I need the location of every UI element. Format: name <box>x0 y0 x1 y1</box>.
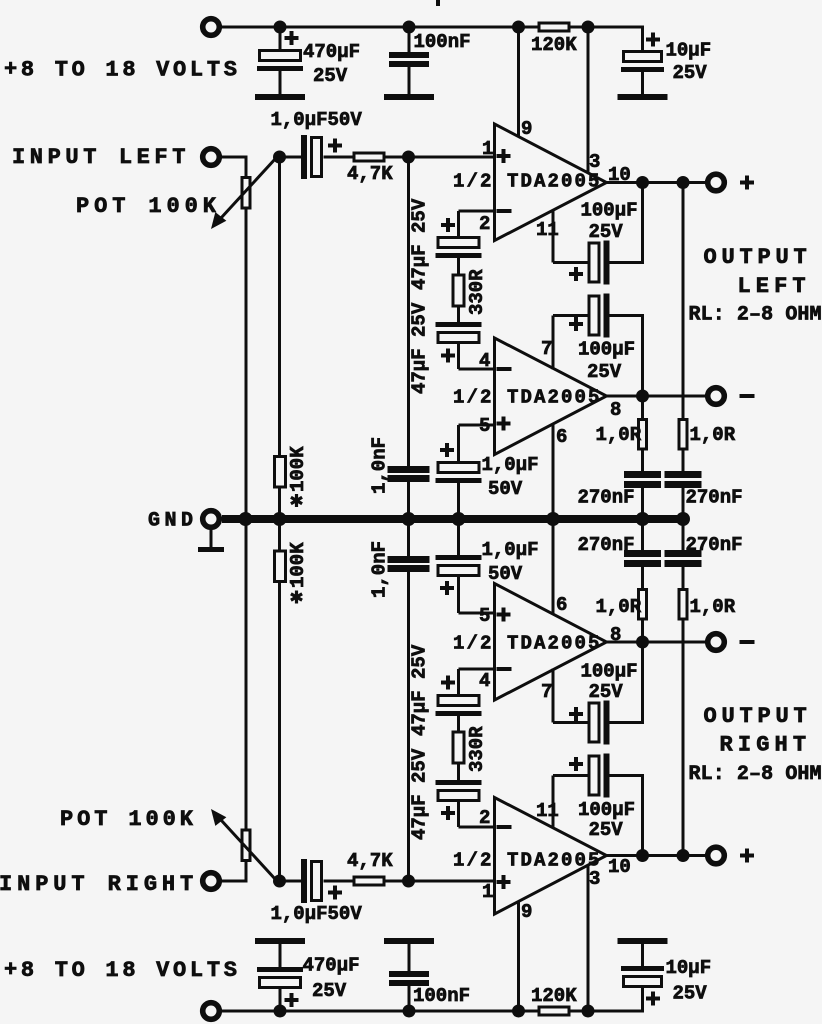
wire pin 3 U1 <box>587 27 590 174</box>
plus input symbol U1b <box>497 417 511 431</box>
label 50V C20 <box>488 563 523 585</box>
node bottom rail / C14 <box>403 1005 416 1018</box>
plus sign C9 <box>569 267 583 281</box>
plus sign C7 <box>441 349 455 363</box>
plus input symbol U2b <box>497 608 511 622</box>
plus sign C19 <box>441 676 455 690</box>
svg-text:10µF: 10µF <box>666 40 712 62</box>
label RL: 2-8 OHM (left) <box>689 304 822 327</box>
wire top supply rail <box>222 26 644 29</box>
svg-text:1,0µF: 1,0µF <box>482 539 539 561</box>
svg-text:1,0R: 1,0R <box>596 596 642 618</box>
svg-text:100K: 100K <box>287 542 309 588</box>
pin label 4 U1b <box>479 350 490 372</box>
label 4,7K (bottom) <box>347 850 393 872</box>
label 25V C13 <box>312 980 347 1002</box>
pin label 3 U1 <box>589 151 600 173</box>
wire input right to pot <box>222 861 248 881</box>
label +8 TO 18 VOLTS (bottom) <box>4 958 241 983</box>
label 120K (top) <box>531 34 577 56</box>
svg-text:1/2 TDA2005: 1/2 TDA2005 <box>453 171 602 193</box>
minus input symbol U2b <box>497 667 512 671</box>
svg-text:9: 9 <box>521 118 532 140</box>
label 1,0R R5 <box>596 424 642 446</box>
pin 6 lead U1b <box>552 424 555 520</box>
pin label 11 U1a <box>536 219 559 241</box>
pin 11 lead U2a <box>552 776 555 829</box>
label 270nF C23 <box>578 534 635 556</box>
svg-text:POT 100K: POT 100K <box>60 807 197 832</box>
svg-text:1,0µF: 1,0µF <box>482 454 539 476</box>
pin label 5 U1b <box>479 415 490 437</box>
pot wiper arrow P2 <box>211 809 276 880</box>
pin 7 lead U2b <box>552 669 555 723</box>
label 120K (bottom) <box>531 985 577 1007</box>
svg-text:1/2 TDA2005: 1/2 TDA2005 <box>453 633 602 655</box>
label INPUT RIGHT <box>0 872 198 897</box>
svg-text:47µF 25V: 47µF 25V <box>409 644 431 736</box>
capacitor C12 270nF right <box>665 471 702 519</box>
svg-text:+8 TO 18 VOLTS: +8 TO 18 VOLTS <box>4 958 241 983</box>
potentiometer P1 100K <box>242 178 250 209</box>
op-amp U2b 1/2 TDA2005 <box>495 584 607 701</box>
svg-text:100µF: 100µF <box>578 799 635 821</box>
svg-text:100µF: 100µF <box>581 200 638 222</box>
plus sign C8 <box>440 443 454 457</box>
ground C1 <box>255 94 305 100</box>
svg-text:1: 1 <box>482 881 493 903</box>
svg-text:OUTPUT: OUTPUT <box>704 245 812 270</box>
wire R8 to pin 1 U2 <box>386 880 495 883</box>
label 1/2 TDA2005 U1b <box>453 387 602 409</box>
plus sign C18 <box>441 806 455 820</box>
label +8 TO 18 VOLTS (top) <box>4 58 241 83</box>
resistor R2 4,7K (top) <box>354 153 384 161</box>
capacitor C6 47uF 25V upper <box>436 238 482 275</box>
label 1,0uF C8 <box>482 454 539 476</box>
terminal output right - <box>708 634 725 651</box>
svg-text:10: 10 <box>608 856 631 878</box>
label INPUT LEFT <box>12 145 190 170</box>
label 25V C9 <box>589 221 624 243</box>
node input node / 1,0nF <box>402 151 415 164</box>
node ground bus 5 <box>546 512 560 526</box>
svg-text:330R: 330R <box>466 726 488 772</box>
node ground bus 1 <box>239 512 253 526</box>
label 270nF C12 <box>686 487 743 509</box>
capacitor C13 470uF 25V <box>257 944 303 1011</box>
resistor R3 100K bias left <box>278 157 281 455</box>
svg-text:1: 1 <box>482 138 493 160</box>
wire R4 to C7 <box>457 308 460 323</box>
pot wiper arrow P1 <box>211 158 276 229</box>
wire output + right <box>607 854 706 857</box>
minus input symbol U1a <box>497 209 512 213</box>
resistor R6 1,0R right <box>679 183 687 472</box>
node output + / zobel left <box>636 176 649 189</box>
label 1,0uF50V (top) <box>271 109 363 131</box>
node output + right / zobel left <box>636 849 649 862</box>
plus sign C3 <box>646 33 660 47</box>
capacitor C18 47uF 25V lower <box>436 764 482 801</box>
svg-text:270nF: 270nF <box>578 487 635 509</box>
svg-text:100K: 100K <box>287 446 309 492</box>
label 25V C22 <box>589 681 624 703</box>
node ground bus 4 <box>452 512 466 526</box>
label 1/2 TDA2005 U2a <box>453 850 602 872</box>
svg-text:4,7K: 4,7K <box>347 850 393 872</box>
pin 5 lead U1b <box>459 425 495 462</box>
svg-text:OUTPUT: OUTPUT <box>704 704 812 729</box>
resistor R12 1,0R right <box>679 567 687 856</box>
resistor R10 330R right <box>453 732 464 763</box>
svg-text:100µF: 100µF <box>578 339 635 361</box>
svg-text:1,0R: 1,0R <box>596 424 642 446</box>
plus sign C20 <box>440 581 454 595</box>
label 10uF (top) <box>666 40 712 62</box>
node output - / zobel <box>636 390 649 403</box>
plus sign C15 <box>646 992 660 1006</box>
label 330R (bottom) <box>466 726 488 772</box>
capacitor C23 270nF left <box>624 519 661 567</box>
op-amp U1a 1/2 TDA2005 <box>495 124 607 241</box>
wire output + left <box>607 181 706 184</box>
pin 4 lead U1b <box>459 368 495 371</box>
svg-text:270nF: 270nF <box>686 487 743 509</box>
pin label 6 U2b <box>556 594 567 616</box>
resistor R9 100K bias right <box>278 583 281 881</box>
capacitor C16 1uF 50V input right <box>280 859 354 903</box>
pin label 7 U1b <box>541 338 552 360</box>
svg-text:INPUT RIGHT: INPUT RIGHT <box>0 872 198 897</box>
resistor R7 120K (bottom) <box>539 1007 569 1015</box>
capacitor C15 10uF 25V <box>621 944 664 1011</box>
ground stub below GND terminal <box>198 530 224 552</box>
label RL: 2-8 OHM (right) <box>689 763 822 786</box>
pin label 8 U1b <box>610 399 621 421</box>
label 47uF25V C6 <box>409 198 431 290</box>
capacitor C21 100uF 25V bootstrap lower <box>553 754 644 856</box>
capacitor C8 1uF 50V left <box>436 463 482 520</box>
terminal +V left (top) <box>203 19 220 36</box>
pin label 3 U2 <box>589 868 600 890</box>
capacitor C11 270nF left <box>624 471 661 519</box>
svg-text:25V: 25V <box>587 361 622 383</box>
label 470uF (top) <box>303 41 360 63</box>
svg-text:25V: 25V <box>312 980 347 1002</box>
label POT 100K (bottom) <box>60 807 197 832</box>
ground bus <box>222 515 688 523</box>
svg-text:9: 9 <box>521 901 532 923</box>
label 100uF C22 <box>581 661 638 683</box>
capacitor C22 100uF 25V bootstrap upper <box>553 642 644 745</box>
svg-text:2: 2 <box>479 213 490 235</box>
label 1,0nF (top) <box>369 437 391 494</box>
plus input symbol U2a <box>497 875 511 889</box>
pin label 10 U2a <box>608 856 631 878</box>
svg-text:100nF: 100nF <box>414 31 471 53</box>
minus sign output left <box>740 394 755 398</box>
label 25V C10 <box>587 361 622 383</box>
capacitor C7 47uF 25V lower <box>436 322 482 369</box>
plus sign C13 <box>285 993 299 1007</box>
svg-text:1,0µF50V: 1,0µF50V <box>271 903 363 925</box>
pin 2 lead U1a <box>459 211 495 237</box>
node top rail / pin9 column <box>512 21 525 34</box>
svg-text:100nF: 100nF <box>413 985 470 1007</box>
capacitor C10 100uF 25V bootstrap lower <box>553 294 644 397</box>
svg-text:270nF: 270nF <box>578 534 635 556</box>
node input left junction <box>273 151 286 164</box>
ground C2 <box>384 94 434 100</box>
wire pot P1 to ground bus <box>245 210 248 520</box>
plus sign output right <box>740 849 754 863</box>
svg-text:47µF 25V: 47µF 25V <box>409 198 431 290</box>
pin 11 lead U1a <box>552 210 555 263</box>
resistor R1 120K (top) <box>539 23 569 31</box>
svg-text:120K: 120K <box>531 985 577 1007</box>
svg-text:RL: 2–8 OHM: RL: 2–8 OHM <box>689 304 822 327</box>
wire R2 to pin 1 U1 <box>386 156 495 159</box>
ground C3 <box>618 94 668 100</box>
svg-text:1,0nF: 1,0nF <box>369 437 391 494</box>
node input node right / 1,0nF <box>402 875 415 888</box>
label *100K (top) <box>287 446 309 507</box>
plus sign output left <box>740 176 754 190</box>
label POT 100K (top) <box>76 194 221 219</box>
label 25V C1 <box>313 65 348 87</box>
svg-text:50V: 50V <box>488 563 523 585</box>
capacitor C1 470uF 25V <box>257 27 303 94</box>
wire R10 to C19 <box>457 716 460 731</box>
node bottom rail / C13 <box>274 1005 287 1018</box>
pin 5 lead U2b <box>459 576 495 613</box>
pin label 11 U2a <box>536 800 559 822</box>
resistor R4 330R left <box>453 275 464 306</box>
label LEFT <box>738 274 811 299</box>
terminal output right + <box>708 847 725 864</box>
resistor R3 body <box>275 457 286 488</box>
capacitor C14 100nF (bottom) <box>389 944 429 1011</box>
plus input symbol U1a <box>497 149 511 163</box>
potentiometer P2 100K <box>242 830 250 861</box>
node output + / zobel right <box>677 176 690 189</box>
label 470uF (bottom) <box>303 955 360 977</box>
wire bottom supply rail <box>222 1010 644 1013</box>
svg-text:RIGHT: RIGHT <box>720 733 812 758</box>
label OUTPUT (right) <box>704 704 812 729</box>
capacitor C20 1uF 50V right <box>436 519 482 576</box>
label 330R (top) <box>466 269 488 315</box>
label 100uF C9 <box>581 200 638 222</box>
terminal output left + <box>708 174 725 191</box>
pin label 1 U2a <box>482 881 493 903</box>
node bottom rail / R7 right <box>582 1005 595 1018</box>
svg-text:LEFT: LEFT <box>738 274 811 299</box>
svg-text:1,0nF: 1,0nF <box>369 541 391 598</box>
minus input symbol U2a <box>497 825 512 829</box>
pin label 2 U1a <box>479 213 490 235</box>
svg-text:4: 4 <box>479 350 490 372</box>
op-amp U2a 1/2 TDA2005 <box>495 798 607 915</box>
svg-text:47µF 25V: 47µF 25V <box>409 748 431 840</box>
label 270nF C11 <box>578 487 635 509</box>
svg-text:7: 7 <box>541 338 552 360</box>
node ground bus 3 <box>402 512 416 526</box>
capacitor C17 1,0nF right <box>388 519 430 881</box>
label 270nF C24 <box>686 534 743 556</box>
wire pin 9 U1 <box>517 27 520 137</box>
svg-text:10µF: 10µF <box>666 957 712 979</box>
svg-text:10: 10 <box>608 164 631 186</box>
svg-text:120K: 120K <box>531 34 577 56</box>
pin label 1 U1a <box>482 138 493 160</box>
resistor R9 body <box>275 551 286 582</box>
label 25V C3 <box>673 62 708 84</box>
resistor R5 1,0R left <box>639 396 647 472</box>
pin 7 lead U1b <box>552 316 555 370</box>
node ground bus 2 <box>273 512 287 526</box>
label 1/2 TDA2005 U2b <box>453 633 602 655</box>
label 1,0nF (bottom) <box>369 541 391 598</box>
terminal GND <box>203 511 220 528</box>
svg-text:INPUT LEFT: INPUT LEFT <box>12 145 190 170</box>
svg-text:25V: 25V <box>313 65 348 87</box>
plus sign C16 <box>328 886 342 900</box>
svg-text:11: 11 <box>536 800 559 822</box>
plus sign C10 <box>569 317 583 331</box>
pin label 10 U1a <box>608 164 631 186</box>
svg-text:470µF: 470µF <box>303 955 360 977</box>
pin label 9 U1 <box>521 118 532 140</box>
label 1/2 TDA2005 U1a <box>453 171 602 193</box>
svg-text:25V: 25V <box>589 681 624 703</box>
pin 4 lead U2b <box>459 668 495 671</box>
svg-text:6: 6 <box>556 426 567 448</box>
svg-text:4,7K: 4,7K <box>347 163 393 185</box>
capacitor C24 270nF right <box>665 519 702 567</box>
label 4,7K (top) <box>347 163 393 185</box>
wire R9 to bus <box>278 519 281 550</box>
label 25V C15 <box>673 983 708 1005</box>
svg-text:25V: 25V <box>673 983 708 1005</box>
wire R3 to bus <box>278 488 281 519</box>
label *100K (bottom) <box>287 542 309 604</box>
resistor R11 1,0R left <box>639 567 647 643</box>
terminal INPUT LEFT <box>203 149 220 166</box>
label 1,0R R6 <box>690 424 736 446</box>
svg-text:1,0µF50V: 1,0µF50V <box>271 109 363 131</box>
node top rail / C2 <box>403 21 416 34</box>
wire input left to pot <box>222 157 248 177</box>
svg-text:470µF: 470µF <box>303 41 360 63</box>
label 1,0uF50V (bottom) <box>271 903 363 925</box>
svg-text:1,0R: 1,0R <box>690 596 736 618</box>
node input right junction <box>273 875 286 888</box>
svg-text:RL: 2–8 OHM: RL: 2–8 OHM <box>689 763 822 786</box>
pin label 9 U2 <box>521 901 532 923</box>
label 1,0R R11 <box>596 596 642 618</box>
svg-text:5: 5 <box>479 605 490 627</box>
stray mark top edge <box>436 0 440 6</box>
label 10uF (bottom) <box>666 957 712 979</box>
label 25V C21 <box>589 819 624 841</box>
capacitor C4 1uF 50V input left <box>280 135 354 179</box>
wire pin 3 U2 <box>587 865 590 1012</box>
node output - right / zobel <box>636 636 649 649</box>
label 47uF25V C18 <box>409 748 431 840</box>
ground C13 <box>255 938 305 944</box>
pin label 2 U2a <box>479 807 490 829</box>
label 100nF (top) <box>414 31 471 53</box>
terminal output left - <box>708 388 725 405</box>
svg-text:100µF: 100µF <box>581 661 638 683</box>
wire output - left <box>607 395 706 398</box>
node top rail / R1 right <box>582 21 595 34</box>
ground C14 <box>384 938 434 944</box>
node ground bus 7 <box>676 512 690 526</box>
pin label 7 U2b <box>541 681 552 703</box>
svg-text:7: 7 <box>541 681 552 703</box>
svg-text:11: 11 <box>536 219 559 241</box>
svg-text:25V: 25V <box>589 819 624 841</box>
svg-text:330R: 330R <box>466 269 488 315</box>
capacitor C2 100nF (top) <box>389 27 429 94</box>
node top rail / C1 <box>274 21 287 34</box>
svg-text:25V: 25V <box>589 221 624 243</box>
pin label 4 U2b <box>479 670 490 692</box>
svg-text:270nF: 270nF <box>686 534 743 556</box>
node ground bus 6 <box>636 512 650 526</box>
pin label 5 U2b <box>479 605 490 627</box>
label 100uF C10 <box>578 339 635 361</box>
svg-text:1/2 TDA2005: 1/2 TDA2005 <box>453 850 602 872</box>
terminal INPUT RIGHT <box>203 873 220 890</box>
svg-text:1,0R: 1,0R <box>690 424 736 446</box>
resistor R8 4,7K (bottom) <box>354 877 384 885</box>
svg-text:8: 8 <box>610 624 621 646</box>
capacitor C9 100uF 25V bootstrap upper <box>553 183 644 285</box>
node output + right / zobel right <box>677 849 690 862</box>
svg-text:GND: GND <box>148 510 198 533</box>
label RIGHT <box>720 733 812 758</box>
plus sign C1 <box>285 31 299 45</box>
capacitor C5 1,0nF left <box>388 157 430 519</box>
pin 6 lead U2b <box>552 519 555 615</box>
label 47uF25V C19 <box>409 644 431 736</box>
op-amp U1b 1/2 TDA2005 <box>495 338 607 455</box>
wire pin 9 U2 <box>517 901 520 1011</box>
svg-text:6: 6 <box>556 594 567 616</box>
label 47uF25V C7 <box>409 302 431 394</box>
pin label 8 U2b <box>610 624 621 646</box>
svg-text:25V: 25V <box>673 62 708 84</box>
svg-text:1/2 TDA2005: 1/2 TDA2005 <box>453 387 602 409</box>
capacitor C3 10uF 25V <box>621 27 664 94</box>
minus sign output right <box>740 640 755 644</box>
svg-text:50V: 50V <box>488 478 523 500</box>
svg-text:8: 8 <box>610 399 621 421</box>
node bottom rail / pin9 column <box>512 1005 525 1018</box>
svg-text:+8 TO 18 VOLTS: +8 TO 18 VOLTS <box>4 58 241 83</box>
minus input symbol U1b <box>497 367 512 371</box>
label 50V C8 <box>488 478 523 500</box>
plus sign C22 <box>569 707 583 721</box>
svg-text:4: 4 <box>479 670 490 692</box>
wire output - right <box>607 641 706 644</box>
label 1,0R R12 <box>690 596 736 618</box>
capacitor C19 47uF 25V upper <box>436 669 482 716</box>
